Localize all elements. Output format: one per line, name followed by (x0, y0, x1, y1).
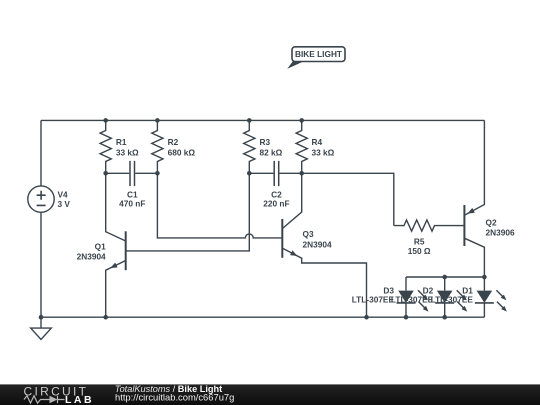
wire R4 node to R5 (302, 173, 394, 225)
wire top supply rail (41, 119, 484, 121)
junction LED line Q2 collector (482, 275, 487, 280)
svg-text:470 nF: 470 nF (119, 198, 145, 208)
transistor Q3 (282, 173, 366, 317)
svg-text:LTL-307EE: LTL-307EE (352, 295, 395, 305)
svg-text:LTL-307EE: LTL-307EE (391, 295, 434, 305)
wire battery negative lead (40, 212, 42, 317)
transistor Q1 (106, 173, 126, 317)
svg-text:33 kΩ: 33 kΩ (116, 148, 139, 158)
svg-text:V4: V4 (58, 190, 69, 200)
LED D1 (475, 277, 507, 317)
wire bottom ground rail (41, 316, 484, 318)
wire C2 to R4 bottom (280, 172, 302, 174)
footer bar (0, 384, 540, 405)
wire C1 to R2 bottom (135, 172, 157, 174)
svg-text:2N3906: 2N3906 (486, 227, 515, 237)
LED D2 (435, 277, 467, 317)
svg-text:R4: R4 (312, 137, 323, 147)
capacitor C2 (274, 161, 279, 186)
junction node R3 C2 (247, 171, 252, 176)
resistor R5 (394, 220, 465, 231)
junction ground D2 (442, 315, 447, 320)
wire R3 node down and left to Q1 base (126, 173, 250, 251)
svg-text:2N3904: 2N3904 (77, 251, 106, 261)
wire R2 node down to Q3 base with hop over crossing (157, 173, 282, 238)
junction ground battery (39, 315, 44, 320)
resistor R2 (152, 120, 163, 173)
junction node C2 R4 (299, 171, 304, 176)
svg-text:Q3: Q3 (303, 229, 314, 239)
svg-text:Q2: Q2 (486, 218, 497, 228)
junction top rail R1 (103, 118, 108, 123)
svg-text:LAB: LAB (65, 394, 94, 405)
svg-text:220 nF: 220 nF (263, 198, 289, 208)
transistor Q2 (464, 120, 484, 277)
junction top rail R4 (299, 118, 304, 123)
wire node Q1 collector to C1 (106, 172, 130, 174)
svg-text:82 kΩ: 82 kΩ (260, 148, 283, 158)
junction ground Q3 emitter (364, 315, 369, 320)
resistor R4 (296, 120, 307, 173)
flag BIKE LIGHT annotation (287, 47, 345, 69)
resistor R1 (100, 120, 111, 173)
voltage source V4 (28, 186, 54, 212)
svg-text:R2: R2 (168, 137, 179, 147)
svg-text:3 V: 3 V (58, 199, 71, 209)
footer logo resistor diode glyph (24, 396, 65, 404)
svg-text:R1: R1 (116, 137, 127, 147)
junction ground D3 (404, 315, 409, 320)
ground (31, 317, 52, 339)
capacitor C1 (130, 161, 135, 186)
svg-text:BIKE LIGHT: BIKE LIGHT (295, 49, 342, 59)
svg-text:2N3904: 2N3904 (303, 239, 332, 249)
svg-text:150 Ω: 150 Ω (408, 246, 431, 256)
svg-text:680 kΩ: 680 kΩ (168, 148, 196, 158)
svg-text:33 kΩ: 33 kΩ (312, 148, 335, 158)
junction top rail R3 (247, 118, 252, 123)
svg-text:R3: R3 (260, 137, 271, 147)
junction node C1 R2 (155, 171, 160, 176)
svg-text:LTL-307EE: LTL-307EE (431, 295, 474, 305)
wire LED supply line (406, 276, 484, 278)
svg-text:R5: R5 (414, 236, 425, 246)
wire node Q1 base to C2 (249, 172, 273, 174)
wire battery positive lead (40, 120, 42, 185)
junction top rail R2 (155, 118, 160, 123)
resistor R3 (244, 120, 255, 173)
junction node R1 C1 (103, 171, 108, 176)
junction ground Q1 emitter (103, 315, 108, 320)
LED D3 (397, 277, 429, 317)
svg-text:http://circuitlab.com/c667u7g: http://circuitlab.com/c667u7g (115, 391, 234, 402)
junction LED line D2 (442, 275, 447, 280)
svg-text:Q1: Q1 (95, 242, 106, 252)
